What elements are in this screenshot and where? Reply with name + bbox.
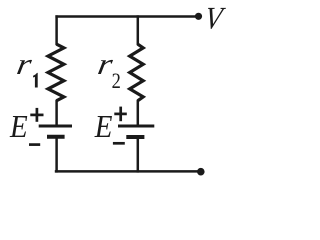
minus sign battery E1: [29, 143, 40, 146]
wire battery E1 to bottom rail: [55, 137, 58, 173]
minus sign battery E2: [113, 142, 125, 145]
resistor r1: [48, 44, 64, 100]
wire battery E2 to bottom rail: [137, 137, 140, 172]
wire top rail: [55, 15, 198, 18]
svg-text:2: 2: [112, 70, 121, 94]
battery E2 negative plate: [126, 135, 144, 139]
bottom node dot: [197, 168, 205, 176]
battery E2 positive plate: [118, 125, 154, 128]
battery E1 negative plate: [47, 135, 65, 139]
label r1 subscript 1: [33, 73, 38, 88]
svg-text:E: E: [9, 109, 28, 144]
plus sign battery E1: [30, 108, 43, 122]
wire r1 to battery E1: [55, 100, 58, 126]
wire branch 2 top segment: [137, 15, 140, 45]
wire branch 1 top segment: [55, 15, 58, 45]
plus sign battery E2: [114, 107, 127, 122]
wire r2 to battery E2: [137, 100, 140, 126]
resistor r2: [130, 44, 144, 100]
battery E1 positive plate: [39, 125, 72, 128]
node V dot: [195, 13, 202, 20]
svg-text:E: E: [94, 109, 113, 144]
wire bottom rail: [55, 170, 201, 173]
